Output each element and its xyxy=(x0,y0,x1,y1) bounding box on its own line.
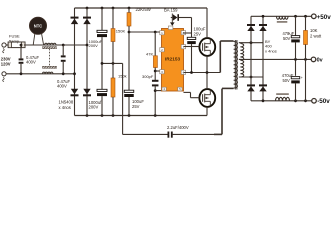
svg-text:IR2153: IR2153 xyxy=(165,56,181,61)
svg-text:-50v: -50v xyxy=(317,98,330,105)
svg-text:BA 159: BA 159 xyxy=(164,7,178,12)
svg-text:120V: 120V xyxy=(1,61,11,66)
svg-text:2.2uF/400V: 2.2uF/400V xyxy=(167,125,189,130)
svg-text:47K: 47K xyxy=(146,51,153,56)
svg-text:NTC: NTC xyxy=(34,24,42,29)
svg-text:150k: 150k xyxy=(118,74,127,79)
svg-text:2 watt: 2 watt xyxy=(310,34,322,39)
svg-text:300pF: 300pF xyxy=(142,74,154,79)
svg-text:0v: 0v xyxy=(317,57,323,63)
svg-text:25V: 25V xyxy=(132,104,140,109)
svg-text:10K: 10K xyxy=(310,28,318,33)
svg-text:x 4nos: x 4nos xyxy=(265,48,277,53)
svg-text:+: + xyxy=(301,76,303,80)
svg-text:22K/5W: 22K/5W xyxy=(136,7,152,12)
svg-text:x 4nos: x 4nos xyxy=(59,105,71,110)
svg-text:200V: 200V xyxy=(89,105,99,110)
svg-text:150K: 150K xyxy=(116,29,126,34)
svg-text:25V: 25V xyxy=(194,32,202,37)
svg-text:400V: 400V xyxy=(26,60,36,65)
svg-text:50V: 50V xyxy=(283,78,291,83)
svg-text:5amp: 5amp xyxy=(9,39,20,44)
svg-text:+50v: +50v xyxy=(317,14,331,21)
svg-text:400V: 400V xyxy=(57,84,67,89)
svg-text:50V: 50V xyxy=(283,36,291,41)
svg-text:200V: 200V xyxy=(89,43,99,48)
